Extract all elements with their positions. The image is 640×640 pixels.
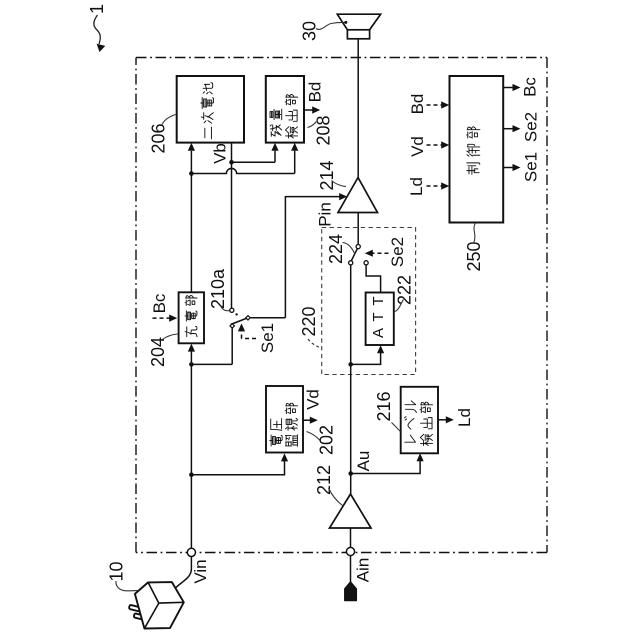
svg-text:Vd: Vd xyxy=(304,389,323,410)
control output Se1 xyxy=(503,152,540,182)
wire charger 204 to battery 206 xyxy=(190,174,192,293)
wire ATT output to switch 224 xyxy=(366,265,381,293)
wire node to 208 right input (hops over Vb line) xyxy=(191,151,294,174)
wire tap to ATT input xyxy=(351,352,381,365)
svg-text:224: 224 xyxy=(326,234,346,264)
svg-text:Pin: Pin xyxy=(316,202,335,227)
wire speaker to amp 214 xyxy=(357,39,359,178)
amplifier 212 (input amp) xyxy=(330,494,372,528)
svg-text:A: A xyxy=(370,328,387,338)
block 206 secondary battery xyxy=(177,76,244,143)
control signal Se1 (dashed arrow at switch 210a) xyxy=(238,323,277,353)
switch 210a xyxy=(230,308,250,328)
control signal Se2 (dashed arrow into switch 224) xyxy=(365,237,407,267)
speaker 30 xyxy=(337,14,380,39)
block 202 voltage monitor xyxy=(266,386,303,453)
wire Vin to plug 10 xyxy=(172,557,191,592)
wire Vb: battery 206 to switch 210a xyxy=(231,143,233,309)
svg-text:220: 220 xyxy=(299,306,319,336)
main power line from Vin terminal xyxy=(190,351,192,548)
block 250 control unit xyxy=(450,76,504,223)
node at switch 210a branch xyxy=(189,362,194,367)
svg-text:Bc: Bc xyxy=(150,293,169,313)
svg-text:222: 222 xyxy=(395,275,415,305)
node Vb xyxy=(229,160,234,165)
figure label 1 with leader arrow xyxy=(87,4,107,52)
label 214 with leader xyxy=(317,160,346,190)
control input Bd (dashed arrow) xyxy=(408,94,449,115)
wire main line to block 202 xyxy=(191,460,284,475)
attenuator ATT 222 xyxy=(366,293,394,346)
signal Vd output arrow xyxy=(303,389,323,424)
svg-text:214: 214 xyxy=(317,160,337,190)
svg-text:216: 216 xyxy=(374,391,394,421)
svg-text:Se1: Se1 xyxy=(258,323,277,353)
svg-text:250: 250 xyxy=(464,241,484,271)
node on main line at 202 branch xyxy=(189,472,194,477)
svg-text:Ld: Ld xyxy=(455,408,474,427)
svg-text:Ain: Ain xyxy=(354,558,373,583)
svg-text:Bd: Bd xyxy=(306,82,325,103)
signal Ld output arrow xyxy=(438,408,474,427)
label 208 with leader xyxy=(308,115,334,145)
svg-text:Se2: Se2 xyxy=(388,237,407,267)
dashed block 220 (ATT + switch group) xyxy=(322,228,416,375)
label 216 with leader xyxy=(374,391,400,431)
node at 208 branch xyxy=(189,171,194,176)
wire amp 214 to switch 224 xyxy=(357,213,359,245)
AC adapter 10 (3D box with prongs) xyxy=(129,582,184,628)
arrow into battery 206 xyxy=(188,143,195,151)
control output Se2 xyxy=(503,112,540,142)
svg-text:Vd: Vd xyxy=(408,136,427,157)
block 204 charger xyxy=(179,292,204,343)
svg-text:210a: 210a xyxy=(208,268,228,309)
node Au xyxy=(348,471,353,476)
svg-text:Vin: Vin xyxy=(191,559,210,583)
arrow into charger 204 xyxy=(188,344,195,352)
label 250 with leader xyxy=(464,223,484,272)
svg-text:Se1: Se1 xyxy=(522,152,541,182)
wire and audio plug at Ain xyxy=(350,556,352,583)
block 208 battery level detector xyxy=(266,76,304,143)
amplifier 214 (power amp) xyxy=(338,178,378,213)
svg-text:1: 1 xyxy=(87,4,107,14)
label 210a with leader xyxy=(208,268,229,311)
label 202 with leader xyxy=(307,425,337,455)
wire Au to level detector 216 xyxy=(351,460,420,474)
svg-text:10: 10 xyxy=(107,561,127,581)
switch 224 xyxy=(349,245,369,265)
control signal Bc (dashed arrow into 204) xyxy=(150,293,177,322)
label 212 with leader xyxy=(314,465,343,506)
svg-text:Au: Au xyxy=(354,451,373,472)
svg-text:Bc: Bc xyxy=(521,77,540,97)
svg-text:T: T xyxy=(370,296,387,305)
svg-text:Se2: Se2 xyxy=(522,112,541,142)
wire node to switch 210a lower contact xyxy=(191,328,232,365)
control output Bc xyxy=(503,77,539,97)
svg-text:Ld: Ld xyxy=(407,177,426,196)
svg-text:206: 206 xyxy=(149,123,169,153)
block 216 level detector xyxy=(401,387,438,454)
svg-text:208: 208 xyxy=(314,115,334,145)
terminal Vin (circle on boundary) xyxy=(187,548,195,556)
label 222 with leader xyxy=(395,275,415,312)
bypass wire switch 224 to node Au line xyxy=(350,265,352,494)
svg-text:204: 204 xyxy=(148,337,168,367)
control input Vd (dashed arrow) xyxy=(408,136,449,157)
svg-text:30: 30 xyxy=(300,21,320,41)
wire amp 212 to Ain terminal xyxy=(350,528,352,547)
label 30 with leader xyxy=(300,21,348,41)
wire Vb node to 208 left input xyxy=(232,151,276,163)
device boundary (dash-dot border) xyxy=(136,57,547,59)
label 220 with dashed leader xyxy=(299,306,321,348)
label 204 with leader xyxy=(148,334,178,367)
signal Bd output arrow from 208 xyxy=(304,82,325,114)
svg-text:T: T xyxy=(370,312,387,321)
label 224 with leader xyxy=(326,234,355,264)
svg-text:Bd: Bd xyxy=(408,94,427,115)
wire Pin into amp 214 (from switch 210a) xyxy=(250,197,341,318)
label 10 with leader xyxy=(107,561,139,590)
node: ATT tap xyxy=(348,362,353,367)
label 206 with leader xyxy=(149,115,176,154)
terminal Ain (circle on boundary) xyxy=(346,547,354,555)
svg-text:Vb: Vb xyxy=(211,143,230,164)
control input Ld (dashed arrow) xyxy=(407,177,449,196)
svg-text:212: 212 xyxy=(314,465,334,495)
